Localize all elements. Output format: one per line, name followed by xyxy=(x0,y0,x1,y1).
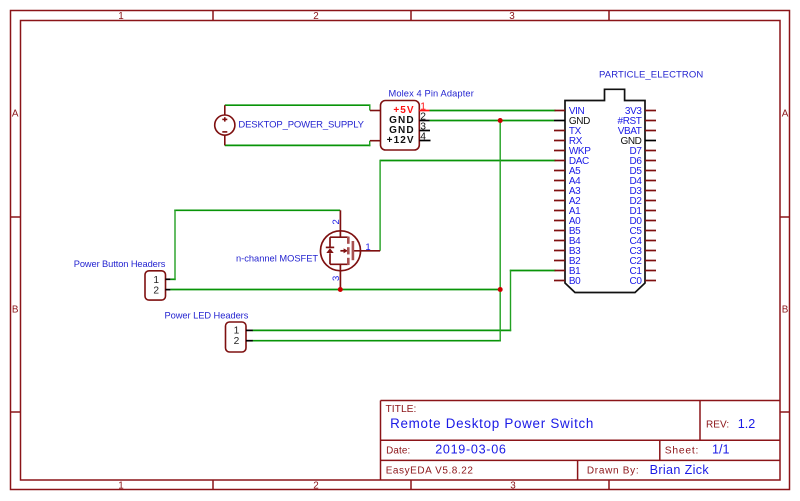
svg-text:+12V: +12V xyxy=(387,135,415,146)
svg-text:TITLE:: TITLE: xyxy=(386,404,417,415)
svg-text:2019-03-06: 2019-03-06 xyxy=(435,443,506,457)
svg-text:Power LED Headers: Power LED Headers xyxy=(164,310,248,320)
svg-text:B: B xyxy=(12,305,19,316)
svg-text:1.2: 1.2 xyxy=(738,417,756,431)
svg-text:Brian Zick: Brian Zick xyxy=(650,463,710,477)
svg-text:B0: B0 xyxy=(569,276,581,287)
svg-text:2: 2 xyxy=(313,11,319,22)
svg-text:2: 2 xyxy=(313,481,319,492)
svg-text:DESKTOP_POWER_SUPPLY: DESKTOP_POWER_SUPPLY xyxy=(238,120,364,131)
svg-text:3: 3 xyxy=(510,481,516,492)
svg-text:3: 3 xyxy=(509,11,515,22)
svg-text:n-channel MOSFET: n-channel MOSFET xyxy=(236,254,318,264)
svg-text:Date:: Date: xyxy=(386,445,410,456)
svg-text:1: 1 xyxy=(118,481,124,492)
svg-text:2: 2 xyxy=(153,285,159,296)
svg-text:1: 1 xyxy=(365,242,370,253)
svg-text:4: 4 xyxy=(420,132,426,143)
svg-text:Power Button Headers: Power Button Headers xyxy=(74,259,166,269)
svg-text:A: A xyxy=(782,109,789,120)
svg-text:REV:: REV: xyxy=(706,420,729,431)
svg-text:2: 2 xyxy=(234,336,240,347)
svg-text:1/1: 1/1 xyxy=(712,443,730,457)
svg-text:B: B xyxy=(782,305,789,316)
svg-text:A: A xyxy=(12,109,19,120)
svg-text:Sheet:: Sheet: xyxy=(665,445,699,456)
svg-text:EasyEDA V5.8.22: EasyEDA V5.8.22 xyxy=(386,465,474,476)
svg-text:PARTICLE_ELECTRON: PARTICLE_ELECTRON xyxy=(599,69,703,80)
svg-text:Drawn By:: Drawn By: xyxy=(587,465,639,476)
svg-text:Molex 4 Pin Adapter: Molex 4 Pin Adapter xyxy=(388,89,473,99)
svg-text:3: 3 xyxy=(331,276,342,281)
svg-text:1: 1 xyxy=(118,11,124,22)
svg-text:2: 2 xyxy=(331,219,342,224)
svg-text:C0: C0 xyxy=(630,276,643,287)
svg-text:Remote Desktop Power Switch: Remote Desktop Power Switch xyxy=(390,416,594,431)
